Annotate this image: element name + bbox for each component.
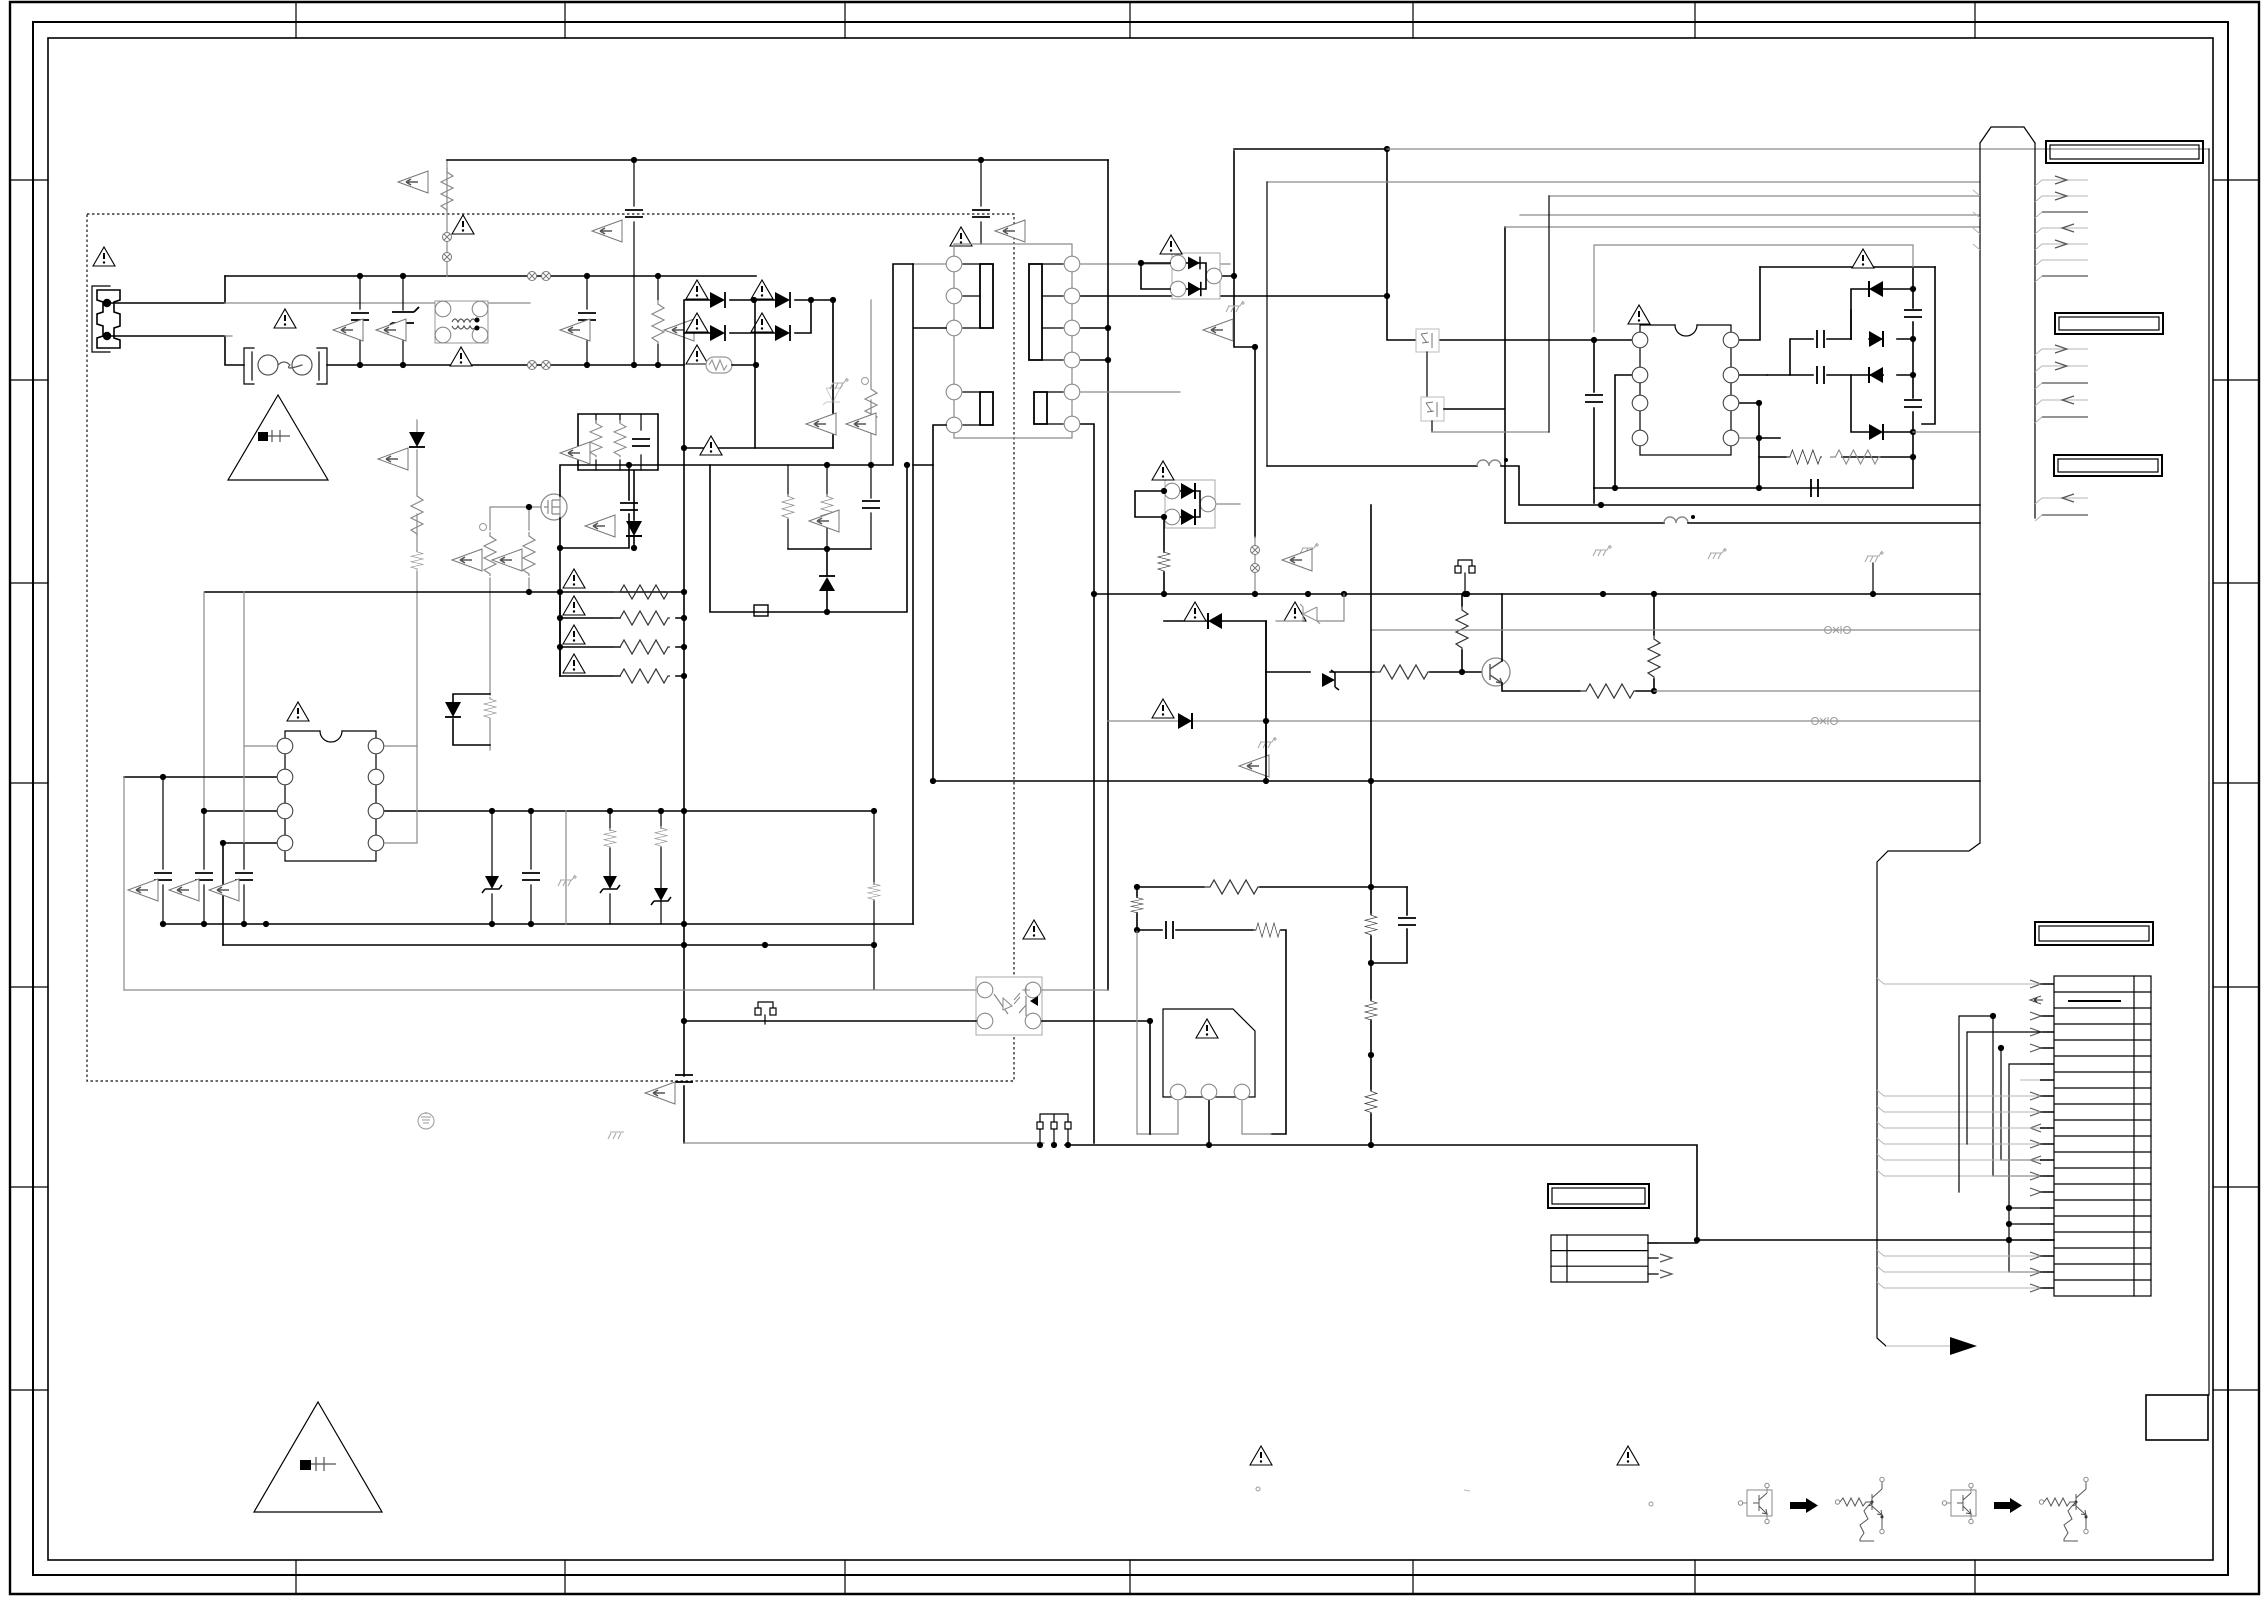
wire AC input to filter xyxy=(110,276,244,365)
capacitors C11 C12 diodes D16 D17 D18 D19 xyxy=(1760,267,1935,375)
resistor R26 xyxy=(1137,886,1407,888)
warning triangle W1 xyxy=(93,247,115,266)
capacitor C3 xyxy=(980,160,982,244)
zener D9 capacitor C10 resistor R16 zener D12 xyxy=(491,811,493,924)
ground (primary) xyxy=(418,1112,434,1129)
inline connectors W2 W3 xyxy=(1371,629,1980,631)
wire source sense bus xyxy=(205,591,684,593)
wire bridge output xyxy=(684,447,833,449)
wire U3 pin1 feed xyxy=(1386,149,1388,296)
resistor R1 xyxy=(441,168,453,212)
thermistor TH1 xyxy=(686,345,708,364)
transformer T1 xyxy=(946,227,1080,438)
dual diode D11 lower xyxy=(1165,480,1215,528)
spark gap SG1 and wire to top rail xyxy=(446,160,448,276)
optocoupler PC1 xyxy=(976,977,1042,1035)
connector CN2 label box xyxy=(2046,141,2203,163)
border ticks top xyxy=(296,2,1975,38)
capacitor C1 (X-cap) xyxy=(359,276,361,365)
spark gaps SG2 SG3 on buses xyxy=(528,272,537,281)
winding rectangles primary xyxy=(963,264,980,328)
wires entering trunk xyxy=(1973,190,1980,250)
common-mode choke L1 xyxy=(435,301,488,343)
regulator IC2 (3-terminal) xyxy=(1163,1009,1255,1100)
capacitor C4 and resistor R2 xyxy=(586,276,588,365)
jumper J3 xyxy=(1458,560,1472,571)
wires T1 secondary pins xyxy=(1081,263,1230,265)
diode D15 on sense line xyxy=(1108,720,1980,722)
resistor R27 xyxy=(1136,887,1138,930)
capacitors C7 C8 C9 xyxy=(163,777,244,924)
connector CN5 (main output header) xyxy=(2054,976,2151,1296)
capacitor C2 xyxy=(633,160,635,365)
bridge rectifier diodes D1 D2 D3 D4 xyxy=(684,300,833,448)
border ticks bottom xyxy=(296,1560,1975,1594)
legend: digital transistor equivalent circuits Q3 Q4 xyxy=(1738,1477,1884,1541)
wires to connector CN3 stubs xyxy=(2035,349,2088,423)
resistors R23 R24 R25 (divider chain) xyxy=(1370,505,1372,1145)
RCD clamp R12 R13 C5 xyxy=(578,414,658,548)
page reference box xyxy=(2146,1395,2208,1440)
warning triangle at F1 xyxy=(274,309,296,328)
capacitor C14 xyxy=(1371,887,1407,963)
inductor L2 and inductor L3 xyxy=(1267,465,1477,467)
border ticks right xyxy=(2213,180,2259,1390)
op-amp U3 (secondary controller) xyxy=(1628,305,1739,455)
fuse F1 xyxy=(244,348,327,384)
supply flag symbols xyxy=(1300,543,1319,554)
wire vertical node A xyxy=(1265,621,1267,781)
transistor Q2 with zener D14 resistors R17 R18 R19 R20 xyxy=(1266,671,1484,673)
diode D10 (dual rectifier) xyxy=(1160,235,1222,299)
wire U3 supply loop xyxy=(1594,245,1913,332)
wires to connector CN2 stubs xyxy=(2035,180,2088,282)
resistors R8 R9 R10 R11 (current sense) xyxy=(560,618,684,676)
resistors R4 R5 (gate network) xyxy=(490,507,541,750)
diodes column pointing left at x=1883 xyxy=(1851,289,1913,339)
zener D5 and resistor R3 on bridge output xyxy=(832,300,834,448)
diode D13 xyxy=(1164,620,1208,622)
wire secondary ground bus xyxy=(1094,593,1980,595)
fusible resistor caution triangle symbol 2 xyxy=(254,1402,382,1512)
wire main output bus xyxy=(1065,1145,2054,1240)
transistor Q1 (MOSFET) xyxy=(541,494,567,520)
snubber R14 R15 C6 D8 across primary xyxy=(913,263,946,265)
spark gaps SG4 SG5 xyxy=(1254,537,1256,594)
primary pins chain xyxy=(954,244,1072,425)
warning triangles bottom notes xyxy=(1250,1446,1272,1465)
dual diode D10 top xyxy=(1172,253,1220,299)
wire AC neutral bus (bottom) xyxy=(327,364,684,366)
optocoupler PC2 (photo-diode halves) xyxy=(1416,329,1439,397)
wire primary ground vertical xyxy=(683,333,685,1143)
wire feedback to optocoupler xyxy=(124,989,976,991)
diode D6 and startup resistors R6 R7 xyxy=(416,420,418,746)
wire U3 ground with capacitor C13 xyxy=(1594,487,1913,489)
fusible resistor caution triangle symbol xyxy=(228,395,328,480)
connector CN5 label box xyxy=(2035,922,2153,945)
wire top rail xyxy=(447,159,1108,161)
wires to connector CN4 stubs xyxy=(2035,498,2088,521)
connector P1 (AC inlet) xyxy=(92,286,120,352)
pins xyxy=(946,256,962,272)
resistors R21 R22 xyxy=(1759,456,1913,458)
jumper J1 xyxy=(758,1002,773,1013)
wire standby rail (top) xyxy=(1234,148,1387,150)
border ticks left xyxy=(10,180,48,1390)
op-amp U1 (control IC) xyxy=(277,702,384,861)
wire primary return buses xyxy=(163,923,913,925)
diode D7 xyxy=(453,694,490,745)
jumper J2 (3-pin) xyxy=(1040,1114,1068,1122)
winding rectangles secondary xyxy=(1042,264,1063,360)
wires U1 pins xyxy=(244,592,276,746)
connector CN6 (3-pin) xyxy=(1551,1235,1658,1282)
wire harness trunk xyxy=(1980,127,2035,843)
varistor ZNR1 xyxy=(402,276,404,365)
wire AC line bus (top) xyxy=(225,275,756,277)
connector CN6 label box xyxy=(1548,1184,1649,1208)
wire secondary return bus xyxy=(933,780,1980,782)
wire T1 pin5 to drain xyxy=(933,425,946,781)
capacitor C15 resistor R28 xyxy=(1137,930,1286,1134)
